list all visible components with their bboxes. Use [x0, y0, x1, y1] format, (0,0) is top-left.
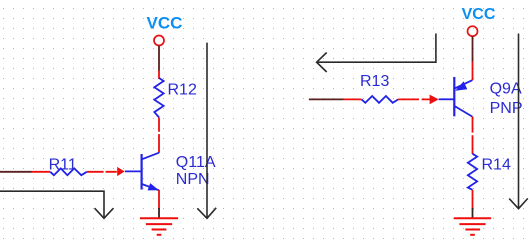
transistor Q11A: [125, 153, 159, 191]
wire R14 to ground: [472, 190, 474, 209]
wire R11 to arrow: [87, 171, 117, 173]
wire VCC to Q9A emitter: [472, 62, 474, 81]
wire gap artifact (right): [419, 97, 422, 101]
wire stub to R11: [32, 171, 51, 173]
wire to R13: [343, 98, 362, 100]
ground (left): [140, 218, 178, 235]
svg-text:PNP: PNP: [490, 100, 523, 117]
annotation arrow (left vertical): [197, 43, 216, 219]
svg-text:Q11A: Q11A: [176, 154, 216, 171]
power symbol VCC (left): [154, 36, 164, 71]
svg-text:R13: R13: [360, 73, 389, 90]
svg-text:R12: R12: [168, 82, 197, 99]
ground (right): [454, 218, 491, 235]
wire VCC to R12: [158, 71, 160, 80]
ground pin (right): [472, 208, 474, 218]
resistor R12: [154, 78, 163, 117]
current arrow (right): [430, 95, 439, 105]
wire stub (left edge): [0, 171, 32, 173]
wire Q9A collector to R14: [472, 116, 474, 154]
svg-text:VCC: VCC: [462, 6, 496, 23]
resistor R14: [468, 154, 477, 190]
svg-text:R14: R14: [482, 157, 511, 174]
wire gap artifact (left column): [158, 132, 161, 134]
svg-text:R11: R11: [49, 157, 77, 174]
wire stub (right, into R13): [309, 98, 343, 100]
svg-text:Q9A: Q9A: [490, 81, 522, 98]
svg-text:NPN: NPN: [176, 171, 210, 188]
current arrow (left): [117, 167, 124, 176]
power symbol VCC (right): [468, 26, 478, 61]
annotation arrow (right vertical): [509, 34, 528, 209]
wire R13 to arrow: [398, 98, 430, 100]
ground pin (left): [158, 208, 160, 218]
svg-text:VCC: VCC: [147, 13, 183, 32]
transistor Q9A: [439, 77, 473, 117]
wire gap artifact (right column): [471, 133, 474, 136]
wire gap artifact (left): [104, 170, 106, 174]
wire R12 to Q11A collector: [158, 117, 160, 152]
wire Q11A emitter to ground: [158, 190, 160, 209]
resistor R11: [50, 168, 87, 175]
annotation arrow (bottom left): [0, 191, 113, 218]
resistor R13: [362, 96, 399, 103]
annotation arrow (top middle): [317, 34, 436, 73]
